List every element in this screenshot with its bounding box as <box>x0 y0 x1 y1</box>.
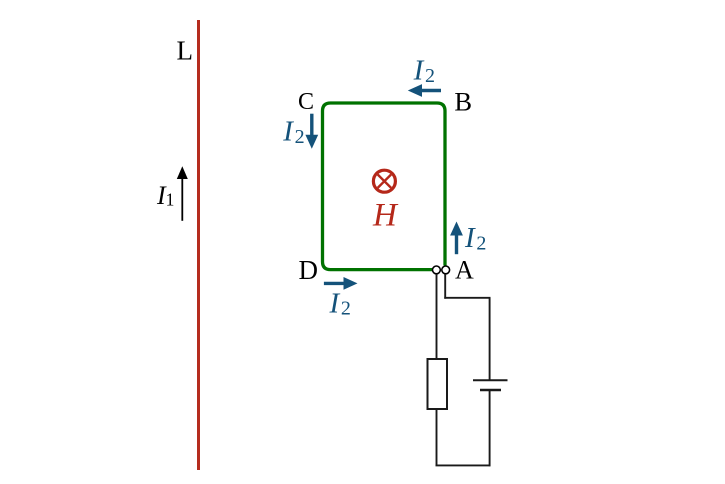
wire from right terminal down <box>444 274 446 299</box>
wire L (long straight red conductor) <box>197 20 200 470</box>
wire bottom horizontal <box>436 464 491 466</box>
svg-text:C: C <box>298 89 314 115</box>
svg-text:H: H <box>372 198 399 234</box>
resistor <box>428 359 448 409</box>
wire right vertical up to battery <box>489 390 491 466</box>
current arrow I2 left (pointing down) <box>305 114 318 149</box>
wire horizontal to right terminal branch <box>444 297 490 299</box>
svg-text:B: B <box>454 87 472 117</box>
wire below resistor <box>436 409 438 465</box>
current arrow I1 <box>177 166 188 221</box>
field symbol H (into page) <box>373 170 395 192</box>
wire from left terminal down to resistor <box>436 274 438 359</box>
svg-text:D: D <box>299 255 319 285</box>
current arrow I2 top (pointing left) <box>408 84 441 97</box>
wire from battery up <box>489 298 491 380</box>
current arrow I2 bottom (pointing right) <box>324 277 358 290</box>
battery cell <box>473 380 508 390</box>
svg-text:L: L <box>177 36 194 66</box>
current arrow I2 right (pointing up) <box>450 222 463 255</box>
svg-text:A: A <box>455 256 474 285</box>
terminal node left (open circle) <box>433 266 441 274</box>
terminal node right (open circle) <box>442 266 450 274</box>
rectangular loop BCDA (green) <box>323 103 446 270</box>
